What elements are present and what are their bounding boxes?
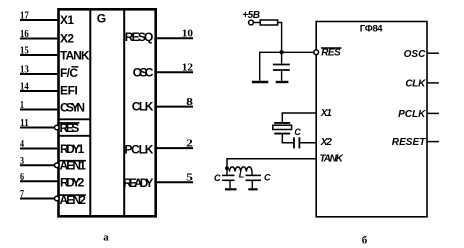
pin 15 wire (TANK) xyxy=(20,54,57,56)
svg-text:а: а xyxy=(103,232,109,244)
quartz crystal ZQ body xyxy=(273,125,292,129)
TANK pin label xyxy=(320,153,344,164)
svg-text:13: 13 xyxy=(20,64,29,76)
svg-text:PCLK: PCLK xyxy=(124,142,153,156)
svg-text:2: 2 xyxy=(186,137,193,149)
pin 3 name label AEN1 xyxy=(59,159,86,173)
svg-text:CSYN: CSYN xyxy=(60,101,85,115)
svg-text:X2: X2 xyxy=(60,32,74,46)
wire junction to RES bubble xyxy=(282,51,314,53)
pin 8 name label CLK xyxy=(132,99,154,113)
pin 2 number label xyxy=(186,137,193,149)
pin 16 wire (X2) xyxy=(20,38,57,40)
TANK pin wire xyxy=(227,159,316,167)
capacitor C3 top plate xyxy=(222,174,235,176)
svg-text:X1: X1 xyxy=(60,13,74,27)
X2 pin label xyxy=(320,137,332,148)
capacitor C4 top plate xyxy=(246,174,262,176)
svg-text:1: 1 xyxy=(20,99,24,111)
pin 14 name label EFI xyxy=(60,84,78,98)
pin 6 name label RDY2 xyxy=(60,175,85,189)
OSC output stub wire xyxy=(427,52,439,54)
pin 7 wire (AEN2) xyxy=(20,198,54,200)
IC U1 middle/right column divider xyxy=(123,9,125,216)
RESET output stub wire xyxy=(427,141,439,143)
pin 2 name label PCLK xyxy=(124,142,153,156)
svg-text:C: C xyxy=(294,127,301,137)
pin 10 name label RESQ xyxy=(125,30,154,44)
inductor L value label xyxy=(239,169,245,179)
pin 13 wire (F/C) xyxy=(20,73,57,75)
svg-text:RES: RES xyxy=(321,48,341,59)
svg-text:10: 10 xyxy=(182,27,194,39)
wire inductor L to capacitor C4 xyxy=(251,172,253,176)
pin 6 number label xyxy=(20,171,24,183)
RES pin inversion bubble xyxy=(314,50,319,55)
+5V supply label xyxy=(242,10,260,21)
wire resistor R1 to corner xyxy=(278,23,282,53)
wire crystal to X2 net xyxy=(282,135,293,143)
pin 16 name label X2 xyxy=(60,32,74,46)
svg-text:12: 12 xyxy=(182,61,194,73)
inductor L coil xyxy=(229,167,252,172)
RES cell box bottom line xyxy=(59,135,91,137)
svg-text:CLK: CLK xyxy=(132,99,154,113)
ground bar under capacitor C1 xyxy=(276,81,289,83)
svg-text:5: 5 xyxy=(186,172,193,184)
capacitor C3 top lead xyxy=(226,168,228,175)
wire capacitor C2 to X2 pin xyxy=(300,142,316,144)
svg-text:X1: X1 xyxy=(320,108,332,119)
pin 17 number label xyxy=(20,10,29,22)
IC D1 (GF84) body outline xyxy=(316,22,427,217)
svg-text:READY: READY xyxy=(123,176,153,190)
pin 1 number label xyxy=(20,99,24,111)
pin 11 number label xyxy=(20,117,29,129)
pin 17 wire (X1) xyxy=(20,19,57,21)
pin 14 wire (EFI) xyxy=(20,90,57,92)
IC D1 type label GF84 xyxy=(360,24,384,35)
pin 3 number label xyxy=(20,155,24,167)
svg-text:RDY1: RDY1 xyxy=(60,142,85,156)
pin 4 number label xyxy=(20,138,24,150)
pin 3 inversion bubble xyxy=(55,163,60,168)
pin 1 name label CSYN xyxy=(60,101,85,115)
wire junction left and down to ground xyxy=(260,52,282,81)
svg-text:OSC: OSC xyxy=(404,49,426,60)
svg-text:RDY2: RDY2 xyxy=(60,175,85,189)
svg-text:CLK: CLK xyxy=(405,79,426,90)
caption a xyxy=(103,232,109,244)
resistor R1 body xyxy=(260,20,277,25)
pin 5 name label READY xyxy=(123,176,153,190)
capacitor C2 left plate xyxy=(293,137,295,148)
svg-text:PCLK: PCLK xyxy=(398,109,426,120)
pin 5 wire (READY) xyxy=(154,181,193,183)
node junction dot at RES net xyxy=(279,50,283,54)
svg-text:15: 15 xyxy=(20,45,29,57)
pin 12 name label OSC xyxy=(133,66,154,80)
quartz crystal ZQ bottom plate xyxy=(274,133,290,135)
X1 pin wire xyxy=(282,113,316,122)
pin 4 wire (RDY1) xyxy=(20,148,57,150)
CLK output stub wire xyxy=(427,82,439,84)
RES cell box top line xyxy=(59,118,91,120)
svg-text:EFI: EFI xyxy=(60,84,78,98)
RESET pin label xyxy=(392,137,426,148)
pin 15 number label xyxy=(20,45,29,57)
pin 11 wire (RES) xyxy=(20,127,54,129)
pin 15 name label TANK xyxy=(60,49,90,63)
IC U1 left/middle column divider xyxy=(89,9,91,216)
ground bar under capacitor C4 xyxy=(248,188,257,190)
pin 8 wire (CLK) xyxy=(154,106,193,108)
pin 7 name label AEN2 xyxy=(59,193,86,207)
pin 6 wire (RDY2) xyxy=(20,180,57,182)
svg-text:4: 4 xyxy=(20,138,24,150)
svg-text:G: G xyxy=(97,12,106,26)
wire terminal to resistor R1 xyxy=(254,22,261,24)
svg-text:3: 3 xyxy=(20,155,24,167)
capacitor C3 value label C xyxy=(214,173,221,183)
capacitor C2 right plate xyxy=(298,137,300,148)
capacitor C2 value label C xyxy=(294,127,301,137)
pin 17 name label X1 xyxy=(60,13,74,27)
svg-text:TANK: TANK xyxy=(60,49,90,63)
IC U1 body outline xyxy=(59,9,156,216)
svg-text:17: 17 xyxy=(20,10,29,22)
CLK pin label xyxy=(405,79,426,90)
pin 10 number label xyxy=(182,27,194,39)
svg-text:X2: X2 xyxy=(320,137,332,148)
pin 2 wire (PCLK) xyxy=(154,147,193,149)
ground bar left of capacitor C1 xyxy=(252,81,268,84)
capacitor C1 top plate xyxy=(273,64,290,66)
svg-text:б: б xyxy=(362,235,368,247)
svg-text:7: 7 xyxy=(20,188,24,200)
svg-text:L: L xyxy=(239,169,245,179)
capacitor C3 bottom plate xyxy=(222,179,235,181)
pin 11 name label RES xyxy=(59,121,79,135)
svg-text:14: 14 xyxy=(20,81,29,93)
pin 4 name label RDY1 xyxy=(60,142,85,156)
pin 13 number label xyxy=(20,64,29,76)
RES pin label xyxy=(321,48,342,59)
OSC pin label xyxy=(404,49,426,60)
capacitor C1 bottom plate xyxy=(273,69,290,71)
capacitor C1 bottom lead xyxy=(281,71,283,81)
capacitor C4 value label C xyxy=(264,172,271,182)
pin 13 name label F/C xyxy=(60,66,78,80)
ground bar under capacitor C3 xyxy=(225,188,237,190)
svg-text:OSC: OSC xyxy=(133,66,154,80)
capacitor C3 bottom lead xyxy=(229,180,231,188)
caption b xyxy=(362,235,368,247)
pin 8 number label xyxy=(186,96,193,108)
svg-text:C: C xyxy=(264,172,271,182)
capacitor C4 bottom lead xyxy=(251,180,253,188)
capacitor C4 bottom plate xyxy=(246,179,262,181)
svg-text:16: 16 xyxy=(20,28,29,40)
pin 7 number label xyxy=(20,188,24,200)
pin 12 wire (OSC) xyxy=(154,71,193,73)
quartz crystal ZQ top plate xyxy=(274,122,290,124)
pin 7 inversion bubble xyxy=(55,196,60,201)
PCLK output stub wire xyxy=(427,112,439,114)
PCLK pin label xyxy=(398,109,426,120)
pin 10 wire (RESQ) xyxy=(154,37,193,39)
capacitor C1 top lead xyxy=(281,52,283,63)
pin 11 inversion bubble xyxy=(55,125,60,130)
pin 1 wire (CSYN) xyxy=(20,109,57,111)
svg-text:F/C: F/C xyxy=(60,66,78,80)
svg-text:RESET: RESET xyxy=(392,137,426,148)
svg-text:11: 11 xyxy=(20,117,29,129)
svg-text:ГФ84: ГФ84 xyxy=(360,24,384,35)
+5V terminal circle xyxy=(249,20,254,25)
X1 pin label xyxy=(320,108,332,119)
pin 12 number label xyxy=(182,61,194,73)
svg-text:8: 8 xyxy=(186,96,193,108)
IC U1 function label G xyxy=(97,12,106,26)
svg-text:6: 6 xyxy=(20,171,24,183)
svg-text:TANK: TANK xyxy=(320,153,344,164)
svg-text:RESQ: RESQ xyxy=(125,30,154,44)
svg-text:C: C xyxy=(214,173,221,183)
pin 16 number label xyxy=(20,28,29,40)
tank node junction dot xyxy=(225,166,229,170)
pin 14 number label xyxy=(20,81,29,93)
pin 3 wire (AEN1) xyxy=(20,164,54,166)
pin 5 number label xyxy=(186,172,193,184)
